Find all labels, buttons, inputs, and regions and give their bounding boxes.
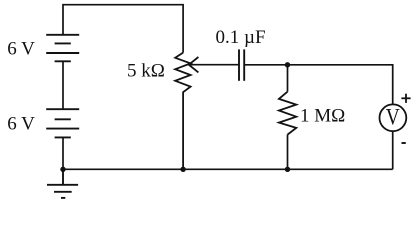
battery B2 (6 V) plates <box>46 109 79 137</box>
node junction dot (resistor R2 on bottom rail) <box>285 167 290 172</box>
voltmeter M1 circle <box>380 104 407 131</box>
wire wiper to capacitor left plate <box>189 64 239 66</box>
node junction dot (capacitor/resistor top node) <box>285 62 290 67</box>
voltmeter minus polarity mark <box>402 142 406 144</box>
svg-text:5 kΩ: 5 kΩ <box>127 60 165 81</box>
voltmeter plus polarity mark <box>401 94 410 103</box>
resistor R2 body (1 MOhm zigzag) <box>279 92 296 135</box>
wire voltmeter bottom to bottom rail <box>392 132 394 170</box>
wire capacitor right plate to top right corner and down to voltmeter <box>244 65 393 104</box>
svg-text:6 V: 6 V <box>7 38 35 59</box>
wire bottom rail <box>63 168 393 170</box>
potentiometer R1 body (5 kOhm zigzag) and bottom stem <box>175 53 190 170</box>
potentiometer R1 wiper arrow <box>189 57 199 72</box>
ground symbol <box>47 169 78 198</box>
battery B1 (6 V) plates <box>46 35 79 62</box>
svg-text:0.1 µF: 0.1 µF <box>216 27 266 48</box>
wire top loop: battery top stem, top wire, potentiometer top stem <box>63 5 183 53</box>
svg-text:V: V <box>386 104 400 130</box>
capacitor C1 (0.1 uF) plates <box>239 49 244 80</box>
wire top node down to resistor R2 <box>287 65 289 92</box>
node junction dot (battery/ground on bottom rail) <box>60 167 65 172</box>
node junction dot (potentiometer on bottom rail) <box>180 167 185 172</box>
wire battery B2 bottom stem to bottom rail <box>62 137 64 169</box>
wire resistor R2 to bottom rail <box>287 135 289 170</box>
wire between battery B1 and battery B2 <box>62 61 64 109</box>
svg-text:6 V: 6 V <box>7 113 35 134</box>
svg-text:1 MΩ: 1 MΩ <box>300 105 345 126</box>
